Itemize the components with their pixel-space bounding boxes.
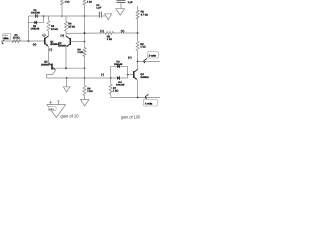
svg-text:(-): (-)	[49, 48, 52, 52]
svg-text:1 kΩ: 1 kΩ	[87, 90, 92, 93]
svg-text:0.2 V: 0.2 V	[49, 108, 54, 111]
svg-text:10 kΩ: 10 kΩ	[13, 36, 20, 39]
svg-text:10 kΩ: 10 kΩ	[68, 25, 75, 28]
svg-text:1N4148: 1N4148	[31, 28, 40, 31]
svg-text:gain of 100: gain of 100	[121, 114, 140, 119]
svg-text:4.7 kΩ: 4.7 kΩ	[141, 13, 148, 16]
svg-text:2N3904: 2N3904	[58, 44, 67, 47]
svg-text:(+): (+)	[121, 29, 125, 33]
svg-text:1 kΩ: 1 kΩ	[140, 46, 145, 49]
svg-text:1 μF: 1 μF	[128, 1, 134, 4]
svg-text:4 volts: 4 volts	[145, 103, 153, 106]
svg-text:1 μF: 1 μF	[96, 6, 102, 9]
svg-text:1 kΩ: 1 kΩ	[65, 1, 70, 4]
svg-text:1N4148: 1N4148	[114, 63, 123, 66]
svg-text:1 kΩ: 1 kΩ	[77, 51, 82, 54]
svg-text:10 kΩ: 10 kΩ	[51, 28, 58, 31]
svg-text:2N3904: 2N3904	[41, 63, 50, 66]
svg-text:(-): (-)	[43, 33, 46, 37]
svg-text:gain of 10: gain of 10	[61, 114, 80, 119]
svg-text:(+): (+)	[100, 29, 104, 33]
svg-text:1 kΩ: 1 kΩ	[113, 90, 118, 93]
svg-text:(+): (+)	[33, 43, 37, 47]
svg-text:(+): (+)	[128, 55, 132, 59]
svg-text:2N3904: 2N3904	[140, 76, 149, 79]
svg-text:1N4148: 1N4148	[31, 12, 40, 15]
svg-text:1 kΩ: 1 kΩ	[87, 1, 92, 4]
svg-text:sine: sine	[3, 37, 9, 40]
svg-text:1 kΩ: 1 kΩ	[107, 38, 112, 41]
svg-text:(+): (+)	[60, 34, 64, 38]
svg-text:2 volts: 2 volts	[149, 55, 157, 58]
svg-text:1N4148: 1N4148	[116, 83, 125, 86]
svg-text:(-): (-)	[101, 72, 104, 76]
